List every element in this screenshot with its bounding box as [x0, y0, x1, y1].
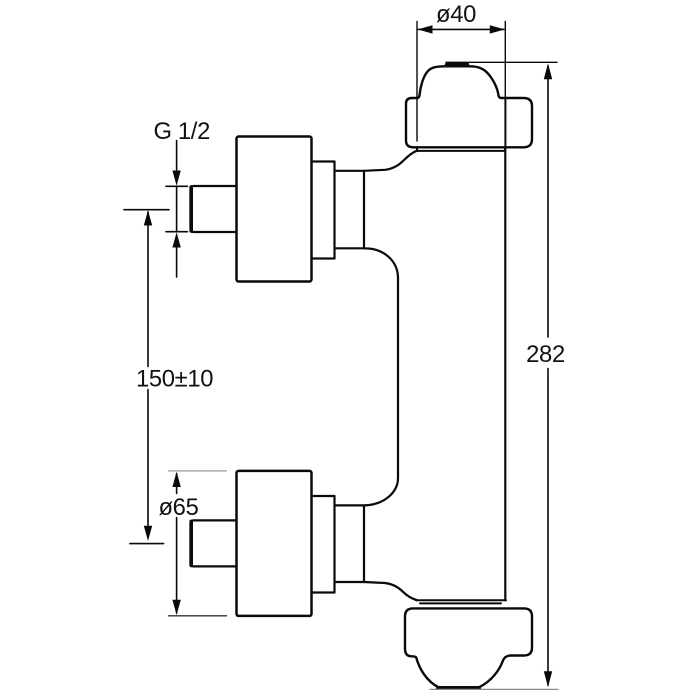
svg-text:ø40: ø40	[436, 1, 476, 28]
dimension ø40 left arrow	[418, 25, 433, 33]
dimension 282 bottom arrow	[544, 671, 552, 687]
lower boss bottom curve	[364, 582, 417, 600]
bottom cap dome thick bottom	[438, 686, 479, 690]
svg-text:282: 282	[526, 341, 565, 368]
column/pipe left edge between bosses	[397, 277, 399, 475]
svg-text:ø65: ø65	[159, 494, 199, 521]
dimension G 1/2 top arrow	[172, 171, 180, 186]
dimension ø40 right extension line	[504, 22, 506, 99]
upper boss bottom fillet	[364, 248, 398, 278]
dimension ø40 left extension line	[416, 22, 418, 142]
dimension G 1/2 bottom tick	[166, 231, 188, 233]
dimension ø65 bottom extension line	[169, 615, 227, 617]
svg-text:150±10: 150±10	[136, 366, 213, 393]
top cap with ears and dome	[406, 66, 532, 147]
bottom cap body with dome	[405, 608, 532, 687]
dimension 282 top arrow	[544, 63, 552, 79]
svg-text:G 1/2: G 1/2	[154, 118, 211, 145]
dimension 282 line	[547, 66, 549, 685]
dimension G 1/2 top tick	[166, 185, 188, 187]
dimension 150 bottom arrow	[144, 526, 152, 541]
dimension 150 line	[147, 212, 149, 537]
lower valve knob	[237, 471, 312, 616]
dimension G 1/2 mid line	[176, 186, 178, 231]
dimension ø40 right arrow	[490, 25, 505, 33]
dimension G 1/2 bottom arrow	[172, 232, 180, 247]
dimension 150 top tick	[124, 209, 169, 211]
dimension ø65 top arrow	[172, 472, 180, 487]
upper valve stub thick edge	[189, 187, 193, 231]
lower boss top fillet	[365, 474, 399, 505]
dimension 150 bottom tick	[130, 543, 164, 545]
upper valve stub	[191, 186, 237, 232]
top cap dome thick top	[447, 63, 468, 66]
upper valve step2	[335, 171, 365, 249]
dimension ø65 line	[176, 474, 178, 614]
column right edge	[504, 147, 506, 600]
dimension ø65 bottom arrow	[172, 600, 180, 615]
dimension ø40 line	[418, 28, 504, 30]
dimension 150 top arrow	[144, 210, 152, 225]
upper valve step1	[312, 162, 335, 259]
lower valve step1	[312, 496, 335, 593]
upper valve knob	[237, 137, 312, 282]
lower valve stub	[191, 520, 237, 566]
bottom cap flange	[416, 600, 506, 603]
dimension 282 top extension line	[446, 61, 557, 63]
lower valve step2	[335, 505, 365, 582]
dimension G 1/2 tail bottom	[176, 246, 178, 277]
dimension 282 bottom extension line	[430, 688, 558, 690]
top cap ear boundary	[504, 98, 506, 147]
dimension ø65 top extension line	[169, 470, 227, 472]
lower valve stub thick edge	[189, 521, 193, 565]
upper boss top curve	[364, 151, 417, 171]
top cap flange	[417, 148, 505, 151]
dimension G 1/2 tail top	[176, 141, 178, 183]
